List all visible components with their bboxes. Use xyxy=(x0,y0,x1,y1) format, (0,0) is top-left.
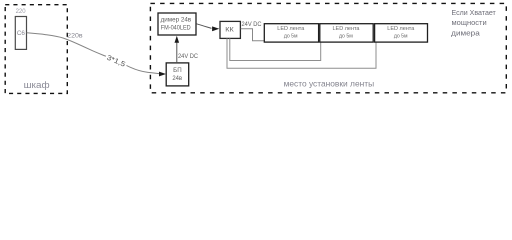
breaker C6 xyxy=(15,17,26,50)
svg-text:место установки ленты: место установки ленты xyxy=(284,78,375,88)
svg-text:24V DC: 24V DC xyxy=(242,22,263,28)
svg-text:24в: 24в xyxy=(172,75,182,82)
dimmer box xyxy=(158,13,196,35)
KK box xyxy=(220,21,240,38)
svg-text:шкаф: шкаф xyxy=(24,80,51,90)
svg-text:БП: БП xyxy=(173,67,182,74)
cabinet dashed box (шкаф) xyxy=(5,5,67,94)
LED strip 3 xyxy=(375,24,428,42)
LED strip 2 xyxy=(320,24,373,42)
svg-text:24V DC: 24V DC xyxy=(178,54,199,60)
PSU box (БП 24в) xyxy=(166,63,189,86)
feed line to junction 1 xyxy=(230,38,321,60)
svg-text:до 5м: до 5м xyxy=(284,34,298,40)
arrowhead into PSU xyxy=(159,72,166,77)
svg-text:Если Хватает: Если Хватает xyxy=(452,8,497,17)
LED strip 1 xyxy=(264,24,318,42)
svg-text:220: 220 xyxy=(16,9,27,15)
arrowhead into KK xyxy=(212,26,219,31)
wire dimmer to KK xyxy=(197,24,212,29)
svg-text:C6: C6 xyxy=(17,30,25,37)
svg-text:LED лента: LED лента xyxy=(277,26,305,32)
wire 220v from C6 to PSU xyxy=(27,33,161,74)
svg-text:димера: димера xyxy=(451,28,480,37)
installation-area dashed box xyxy=(150,3,506,92)
vertical arrow PSU to dimmer xyxy=(176,43,178,63)
svg-text:КК: КК xyxy=(225,26,234,33)
svg-text:FM-040LED: FM-040LED xyxy=(161,25,191,32)
svg-text:димер 24в: димер 24в xyxy=(161,17,192,24)
wire KK to strip1 xyxy=(241,29,265,41)
svg-text:до 5м: до 5м xyxy=(339,34,353,40)
label 3*1,5 xyxy=(104,52,129,70)
feed line to junction 2 xyxy=(227,38,376,68)
svg-text:до 5м: до 5м xyxy=(394,34,408,40)
svg-text:LED лента: LED лента xyxy=(387,26,415,32)
svg-text:LED лента: LED лента xyxy=(333,26,361,32)
svg-text:220в: 220в xyxy=(67,34,82,40)
svg-text:мощности: мощности xyxy=(452,18,487,27)
